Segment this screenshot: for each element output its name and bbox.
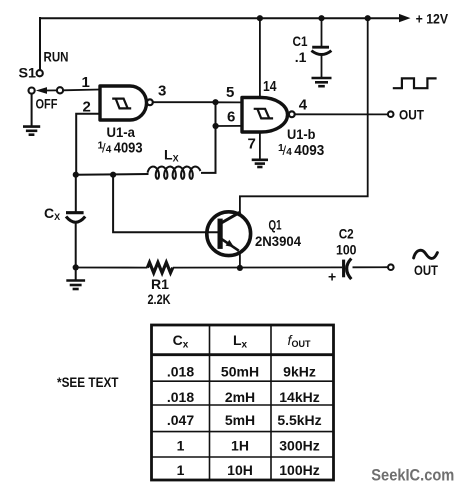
table row separator 1 — [152, 380, 334, 382]
svg-text:100: 100 — [336, 241, 357, 257]
table column divider 2 — [270, 325, 272, 480]
node dot base net — [110, 172, 116, 178]
table row separator 4 — [152, 456, 334, 458]
NAND gate U1-b body — [242, 98, 288, 133]
table row separator 3 — [152, 431, 334, 433]
Q1 base bar — [218, 219, 223, 249]
NAND gate U1-a body — [100, 86, 147, 120]
node A junction dot (pin5 net) — [212, 99, 218, 105]
resistor R1 — [147, 262, 172, 272]
svg-text:100Hz: 100Hz — [279, 462, 319, 478]
svg-text:6: 6 — [227, 109, 235, 126]
svg-text:.018: .018 — [167, 363, 194, 379]
svg-text:C1: C1 — [293, 33, 308, 49]
switch S1 throw contact (OFF) — [57, 87, 63, 93]
transistor Q1 circle — [207, 212, 251, 256]
svg-text:9kHz: 9kHz — [283, 363, 316, 379]
U1-b output bubble — [289, 111, 295, 117]
switch S1 RUN contact — [37, 70, 43, 76]
Q1 emitter stroke with arrow — [222, 239, 239, 251]
wire Q1 emitter down — [239, 253, 241, 269]
svg-text:.018: .018 — [167, 389, 194, 405]
inductor Lx — [148, 167, 201, 179]
wire S1 pole to ground — [31, 94, 33, 128]
U1-b schmitt hysteresis symbol — [254, 109, 273, 119]
Q1 collector stroke — [222, 212, 241, 223]
svg-text:5: 5 — [226, 84, 234, 101]
wire U1-b pin 14 to rail — [259, 18, 261, 97]
OUT terminal (sine) — [388, 264, 394, 270]
svg-text:.047: .047 — [167, 412, 194, 428]
svg-text:RUN: RUN — [44, 49, 69, 65]
svg-text:.1: .1 — [295, 49, 307, 65]
svg-text:4: 4 — [299, 97, 308, 114]
wire U1-a pin 2 feedback — [76, 114, 100, 175]
svg-text:2N3904: 2N3904 — [255, 233, 301, 249]
wire C1 to ground — [321, 55, 323, 79]
wire bottom node to ground — [75, 267, 77, 280]
svg-text:S1: S1 — [19, 65, 37, 81]
table outer border — [152, 325, 334, 480]
svg-text:OUT: OUT — [414, 262, 438, 278]
wire bottom left (node to R1) — [76, 267, 148, 269]
wire rail to Q1 collector — [240, 18, 368, 213]
svg-text:2mH: 2mH — [225, 389, 255, 405]
svg-text:1H: 1H — [231, 437, 249, 453]
svg-text:50mH: 50mH — [221, 363, 259, 379]
+12V supply arrow — [399, 11, 449, 27]
svg-text:14: 14 — [263, 78, 277, 95]
junction dot Cx/bottom wire — [73, 264, 79, 270]
node B junction dot (pin6 net) — [213, 123, 219, 129]
capacitor C2 curved plate — [347, 259, 352, 280]
svg-text:10H: 10H — [227, 462, 253, 478]
table header separator — [152, 353, 334, 356]
svg-text:Q1: Q1 — [269, 217, 282, 232]
svg-text:C2: C2 — [339, 225, 354, 241]
wire node B to U1-b pin 6 — [216, 125, 242, 127]
capacitor C2 plus plate — [342, 260, 345, 278]
svg-text:+ 12V: + 12V — [416, 11, 449, 27]
capacitor Cx wire — [75, 175, 77, 212]
ground (C1) — [312, 78, 332, 86]
wire U1-b output to OUT terminal — [295, 113, 388, 115]
wire node A to node B to inductor — [201, 102, 216, 173]
ground (S1) — [23, 127, 40, 135]
svg-text:5mH: 5mH — [225, 412, 255, 428]
wire U1-a output to node A — [153, 101, 216, 103]
ground (pin 7) — [252, 160, 268, 167]
svg-text:1/44093: 1/44093 — [98, 140, 143, 157]
svg-text:5.5kHz: 5.5kHz — [277, 412, 321, 428]
junction dot rail/collector branch — [365, 15, 371, 21]
svg-text:OUT: OUT — [399, 106, 424, 122]
switch S1 pole contact — [29, 88, 35, 94]
U1-a schmitt hysteresis symbol — [112, 99, 131, 109]
capacitor C1 — [311, 47, 331, 54]
wire Cx to bottom node — [75, 221, 77, 268]
node dot on feedback net — [73, 172, 79, 178]
svg-text:1: 1 — [177, 437, 185, 453]
wire base net to Q1 base — [113, 175, 218, 233]
svg-text:R1: R1 — [151, 276, 169, 292]
svg-text:U1-a: U1-a — [107, 125, 136, 140]
wire node A to U1-b pin 5 — [216, 101, 243, 103]
svg-text:OFF: OFF — [36, 96, 58, 112]
junction dot emitter/bottom wire — [237, 265, 243, 271]
OUT terminal (square wave) — [388, 111, 394, 117]
wire C2 to OUT terminal — [353, 266, 389, 268]
svg-text:1/44093: 1/44093 — [278, 142, 324, 159]
capacitor C1 wire from rail — [321, 18, 323, 47]
capacitor Cx — [66, 213, 85, 223]
wire S1 throw to U1-a pin 1 — [63, 89, 100, 92]
table row separator 2 — [152, 404, 334, 406]
wire feedback net to inductor — [76, 173, 149, 176]
wire +12V top rail — [40, 17, 400, 19]
svg-text:SeekIC.com: SeekIC.com — [371, 466, 454, 485]
svg-text:U1-b: U1-b — [287, 127, 316, 142]
svg-text:7: 7 — [248, 135, 256, 152]
table column divider 1 — [209, 325, 211, 480]
wire U1-b pin 7 to ground — [259, 132, 261, 160]
svg-text:3: 3 — [158, 83, 166, 100]
svg-text:300Hz: 300Hz — [279, 437, 319, 453]
svg-text:14kHz: 14kHz — [279, 389, 319, 405]
svg-text:*SEE TEXT: *SEE TEXT — [57, 375, 119, 390]
svg-text:+: + — [328, 269, 336, 285]
junction dot rail/pin14 — [257, 15, 263, 21]
ground (Cx) — [66, 281, 85, 290]
U1-a output bubble — [147, 99, 153, 105]
wire RUN branch (rail to S1 RUN contact) — [39, 17, 41, 70]
svg-text:2.2K: 2.2K — [148, 291, 171, 307]
wire R1 to C2 — [173, 266, 342, 268]
junction dot rail/C1 — [318, 15, 324, 21]
svg-text:1: 1 — [177, 462, 185, 478]
square wave symbol — [393, 78, 437, 88]
switch S1 wiper arm with arrow — [36, 87, 57, 94]
svg-text:1: 1 — [82, 74, 90, 91]
sine wave symbol — [414, 250, 438, 258]
